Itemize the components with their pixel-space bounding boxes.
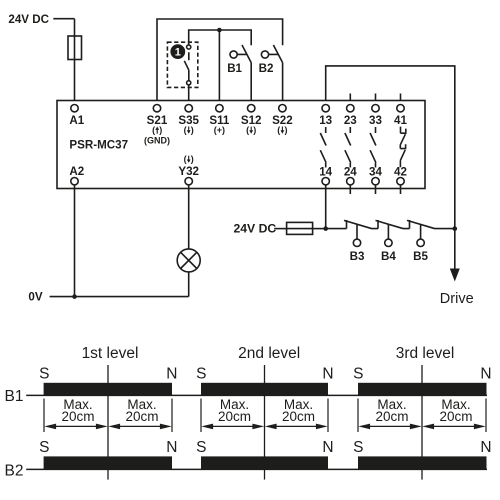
svg-text:13: 13 bbox=[319, 114, 332, 127]
svg-text:B1: B1 bbox=[5, 388, 24, 405]
svg-text:B5: B5 bbox=[413, 250, 428, 263]
svg-text:S: S bbox=[353, 439, 363, 456]
label S N row B2 bbox=[39, 439, 491, 456]
terminal 13 bbox=[322, 105, 329, 112]
wire 24VDC to fuse F2 bbox=[274, 228, 286, 230]
terminal S21 bbox=[153, 105, 160, 112]
svg-text:S: S bbox=[196, 439, 206, 456]
contact 33-34 NO double break bbox=[370, 127, 376, 168]
terminal 33 bbox=[372, 105, 379, 112]
svg-text:(: ( bbox=[152, 125, 155, 135]
svg-text:N: N bbox=[166, 365, 177, 382]
svg-text:S: S bbox=[39, 439, 49, 456]
magnet bar B2 level3 bbox=[358, 456, 487, 469]
svg-text:(: ( bbox=[246, 125, 249, 135]
wire B4 to B5 bbox=[404, 220, 410, 229]
magnet bar B1 level1 bbox=[44, 383, 172, 396]
svg-text:Drive: Drive bbox=[440, 291, 474, 307]
svg-text:2nd level: 2nd level bbox=[238, 345, 300, 362]
svg-text:A2: A2 bbox=[69, 165, 84, 178]
svg-text:S22: S22 bbox=[272, 114, 293, 127]
svg-text:B1: B1 bbox=[227, 62, 242, 75]
dimension ticks level2 bbox=[201, 399, 328, 433]
fuse F2 bbox=[287, 222, 313, 234]
svg-text:B2: B2 bbox=[259, 62, 274, 75]
contact 13-14 NO double break bbox=[320, 127, 326, 168]
svg-text:S: S bbox=[196, 365, 206, 382]
svg-text:41: 41 bbox=[394, 114, 407, 127]
terminal 34 bbox=[372, 178, 379, 185]
node junction A2 0V bbox=[72, 294, 77, 299]
svg-text:(GND): (GND) bbox=[144, 135, 170, 145]
svg-text:42: 42 bbox=[394, 166, 407, 179]
dimension arrow level2 left bbox=[201, 424, 264, 430]
center line level 2 bbox=[264, 365, 266, 480]
switch B2 magnetic sensor bbox=[261, 45, 282, 105]
svg-text:1: 1 bbox=[175, 47, 181, 59]
terminal A1 bbox=[71, 105, 78, 112]
wire 0V rail bbox=[50, 296, 189, 298]
svg-text:A1: A1 bbox=[69, 114, 84, 127]
terminal 24 bbox=[347, 178, 354, 185]
marker 1 black circle bbox=[170, 44, 185, 59]
wire B5 to drive rail bbox=[435, 228, 455, 230]
magnet bar B1 level2 bbox=[201, 383, 328, 396]
svg-text:20cm: 20cm bbox=[218, 409, 251, 424]
wire A2 down to 0V bbox=[74, 185, 76, 297]
terminal S22 bbox=[279, 105, 286, 112]
switch B3 bbox=[344, 220, 372, 246]
terminal S12 bbox=[248, 105, 255, 112]
svg-text:): ) bbox=[159, 125, 162, 135]
svg-text:N: N bbox=[322, 365, 333, 382]
fuse F1 bbox=[68, 36, 82, 60]
wire stub below 34 bbox=[375, 185, 377, 194]
lamp indicator bbox=[177, 249, 200, 272]
wire S35 switch to terminal S35 bbox=[188, 85, 190, 105]
svg-text:23: 23 bbox=[344, 114, 357, 127]
terminal 42 bbox=[397, 178, 404, 185]
dimension arrow level1 left bbox=[44, 424, 107, 430]
svg-text:): ) bbox=[285, 125, 288, 135]
center line level 1 bbox=[107, 365, 109, 480]
svg-text:(: ( bbox=[184, 125, 187, 135]
svg-text:): ) bbox=[191, 154, 194, 164]
magnet bar B2 level1 bbox=[44, 456, 172, 469]
wire stub above 33 bbox=[375, 94, 377, 105]
terminal S35 bbox=[185, 105, 192, 112]
wire S21 to B2 top rail bbox=[157, 19, 283, 105]
magnet bar B1 level3 bbox=[358, 383, 487, 396]
magnet bar B2 level2 bbox=[201, 456, 328, 469]
dimension arrow level1 right bbox=[108, 424, 171, 430]
wire B3 to B4 bbox=[372, 220, 378, 229]
terminal 41 bbox=[397, 105, 404, 112]
wire junction down to S11 bbox=[218, 30, 220, 105]
terminal S11 bbox=[216, 105, 223, 112]
svg-text:20cm: 20cm bbox=[439, 409, 472, 424]
dimension ticks level3 bbox=[358, 399, 486, 433]
terminal 14 bbox=[322, 178, 329, 185]
svg-text:N: N bbox=[166, 439, 177, 456]
svg-text:N: N bbox=[322, 439, 333, 456]
switch S35 internal contact bbox=[184, 45, 190, 85]
svg-text:Y32: Y32 bbox=[178, 165, 199, 178]
wire B2 track line bbox=[26, 468, 487, 470]
center line level 3 bbox=[421, 365, 423, 480]
dashed box forced-guided switch bbox=[167, 42, 197, 87]
switch B1 magnetic sensor bbox=[230, 45, 251, 105]
svg-text:20cm: 20cm bbox=[125, 409, 158, 424]
svg-text:N: N bbox=[480, 365, 491, 382]
switch B5 bbox=[407, 220, 435, 246]
relay body PSR-MC37 bbox=[57, 101, 425, 189]
label Max 20cm texts bbox=[61, 397, 472, 424]
contact 23-24 NO double break bbox=[345, 127, 351, 168]
wire stub below 24 bbox=[349, 185, 351, 194]
terminal A2 bbox=[71, 178, 78, 185]
svg-text:S: S bbox=[39, 365, 49, 382]
svg-text:(: ( bbox=[277, 125, 280, 135]
svg-text:33: 33 bbox=[369, 114, 382, 127]
svg-text:(+): (+) bbox=[214, 125, 225, 135]
node junction 14 feedback bbox=[323, 226, 328, 231]
svg-text:): ) bbox=[253, 125, 256, 135]
wire fuse to junction 14 bbox=[313, 228, 326, 230]
wire stub below 42 bbox=[400, 185, 402, 194]
dimension arrow level3 left bbox=[358, 424, 421, 430]
svg-text:20cm: 20cm bbox=[375, 409, 408, 424]
wire stub above 41 bbox=[400, 94, 402, 105]
dimension arrow level3 right bbox=[422, 424, 485, 430]
svg-text:): ) bbox=[191, 125, 194, 135]
wire junction to B3 bbox=[326, 220, 347, 229]
svg-text:24: 24 bbox=[344, 166, 357, 179]
svg-text:S12: S12 bbox=[241, 114, 262, 127]
dimension arrow level2 right bbox=[265, 424, 328, 430]
svg-text:14: 14 bbox=[319, 166, 332, 179]
svg-text:S35: S35 bbox=[178, 114, 199, 127]
wire lamp to 0V bbox=[188, 272, 190, 297]
node junction drive rail bbox=[453, 226, 458, 231]
svg-text:3rd level: 3rd level bbox=[396, 345, 455, 362]
label S N row B1 bbox=[39, 365, 491, 382]
wire Y32 down to lamp bbox=[188, 185, 190, 249]
svg-text:24V DC: 24V DC bbox=[8, 13, 49, 26]
switch B4 bbox=[376, 220, 404, 246]
wire stub above 23 bbox=[349, 94, 351, 105]
svg-text:20cm: 20cm bbox=[282, 409, 315, 424]
arrow drive output bbox=[450, 269, 460, 282]
dimension ticks level1 bbox=[44, 399, 172, 433]
contact 41-42 NC double break bbox=[400, 127, 406, 168]
wire 14 down to feedback rail bbox=[325, 185, 327, 229]
terminal Y32 bbox=[185, 178, 192, 185]
svg-text:S: S bbox=[353, 365, 363, 382]
svg-text:24V DC: 24V DC bbox=[234, 221, 277, 235]
svg-text:20cm: 20cm bbox=[61, 409, 94, 424]
svg-text:0V: 0V bbox=[28, 290, 42, 303]
svg-text:(: ( bbox=[184, 154, 187, 164]
svg-text:B3: B3 bbox=[350, 250, 365, 263]
svg-text:S21: S21 bbox=[147, 114, 168, 127]
wire 24VDC feed to fuse and A1 bbox=[53, 19, 74, 105]
terminal 23 bbox=[347, 105, 354, 112]
svg-text:B4: B4 bbox=[381, 250, 396, 263]
svg-text:N: N bbox=[480, 439, 491, 456]
wire S35 switch to B1 rail bbox=[189, 30, 252, 45]
svg-text:B2: B2 bbox=[5, 462, 24, 479]
node junction S11 rail bbox=[217, 28, 222, 33]
wire contact 13 over to drive rail bbox=[326, 66, 455, 279]
wire B1 track line bbox=[26, 394, 487, 396]
svg-text:1st level: 1st level bbox=[82, 345, 139, 362]
svg-text:PSR-MC37: PSR-MC37 bbox=[69, 139, 128, 152]
svg-text:34: 34 bbox=[369, 166, 382, 179]
